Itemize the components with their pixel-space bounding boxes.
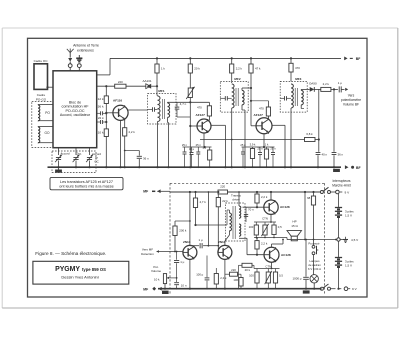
svg-text:Vers: Vers bbox=[348, 93, 355, 97]
svg-text:12 k: 12 k bbox=[98, 97, 104, 101]
svg-text:25 n: 25 n bbox=[196, 143, 202, 147]
svg-text:AF127: AF127 bbox=[196, 113, 206, 117]
svg-text:OC: OC bbox=[94, 159, 98, 163]
svg-text:1,5 V: 1,5 V bbox=[345, 214, 352, 218]
svg-text:Marche-Arrêt: Marche-Arrêt bbox=[332, 183, 351, 187]
svg-text:22 k: 22 k bbox=[98, 116, 104, 120]
svg-text:25 n: 25 n bbox=[182, 143, 188, 147]
svg-text:BF: BF bbox=[356, 166, 361, 170]
svg-text:Accord, oscillateur: Accord, oscillateur bbox=[60, 113, 91, 117]
svg-text:Cadre OC: Cadre OC bbox=[34, 59, 49, 63]
svg-text:220: 220 bbox=[118, 80, 123, 84]
svg-text:AC128: AC128 bbox=[280, 205, 290, 209]
svg-text:470: 470 bbox=[259, 107, 264, 111]
svg-text:ont leurs boîtiers mis à la ma: ont leurs boîtiers mis à la masse bbox=[59, 184, 113, 188]
svg-text:10 k: 10 k bbox=[98, 131, 104, 135]
svg-text:Volume BF: Volume BF bbox=[343, 102, 359, 106]
svg-text:MF3: MF3 bbox=[295, 77, 301, 81]
svg-text:potentiomètre: potentiomètre bbox=[341, 98, 361, 102]
svg-text:AF127: AF127 bbox=[254, 113, 264, 117]
svg-text:Poussoir: Poussoir bbox=[308, 242, 319, 246]
svg-text:0,5: 0,5 bbox=[278, 225, 282, 229]
svg-text:100: 100 bbox=[249, 273, 254, 277]
svg-text:Détection: Détection bbox=[141, 252, 154, 256]
svg-text:CTN: CTN bbox=[262, 216, 268, 220]
svg-text:4,5 V: 4,5 V bbox=[351, 238, 359, 242]
svg-text:Antenne et Terre: Antenne et Terre bbox=[73, 44, 99, 48]
svg-text:Figure 8. — Schéma électroniqu: Figure 8. — Schéma électronique. bbox=[35, 251, 106, 256]
svg-text:20 k: 20 k bbox=[245, 268, 251, 272]
svg-text:40 n: 40 n bbox=[322, 153, 328, 157]
svg-text:4,7 k: 4,7 k bbox=[200, 200, 207, 204]
svg-text:Accord: Accord bbox=[61, 151, 70, 155]
svg-text:PYGMY: PYGMY bbox=[55, 266, 80, 273]
svg-text:1 k: 1 k bbox=[161, 67, 165, 71]
svg-text:2,2 k: 2,2 k bbox=[261, 241, 268, 245]
svg-text:MF: MF bbox=[143, 287, 148, 291]
svg-text:25 n: 25 n bbox=[240, 143, 246, 147]
svg-text:1 μ: 1 μ bbox=[180, 260, 184, 264]
svg-text:6 V 0,04 A: 6 V 0,04 A bbox=[308, 267, 321, 271]
svg-text:BF: BF bbox=[356, 57, 361, 61]
svg-text:68: 68 bbox=[307, 196, 311, 200]
svg-text:0,5: 0,5 bbox=[279, 273, 283, 277]
svg-text:6,8 k: 6,8 k bbox=[306, 132, 313, 136]
svg-text:extérieures: extérieures bbox=[77, 49, 94, 53]
svg-text:47 k: 47 k bbox=[255, 67, 261, 71]
svg-text:3,9 k: 3,9 k bbox=[250, 142, 256, 146]
svg-text:470: 470 bbox=[295, 66, 300, 70]
svg-text:36 n: 36 n bbox=[143, 156, 149, 160]
svg-text:MF: MF bbox=[143, 190, 148, 194]
svg-text:MF2: MF2 bbox=[234, 77, 240, 81]
svg-text:4,7 n: 4,7 n bbox=[180, 102, 187, 106]
svg-text:AA131: AA131 bbox=[142, 79, 151, 83]
svg-text:100: 100 bbox=[249, 225, 254, 229]
svg-text:2,2 k: 2,2 k bbox=[220, 276, 227, 280]
svg-text:10 k: 10 k bbox=[154, 278, 160, 282]
svg-text:type 859 OS: type 859 OS bbox=[82, 267, 106, 272]
svg-text:70 n: 70 n bbox=[248, 207, 254, 211]
svg-text:36 n: 36 n bbox=[338, 153, 344, 157]
svg-text:1,5 V: 1,5 V bbox=[345, 264, 352, 268]
svg-text:15 Ω: 15 Ω bbox=[291, 224, 298, 228]
svg-text:22 k: 22 k bbox=[222, 199, 228, 203]
svg-text:OA90: OA90 bbox=[309, 81, 317, 85]
svg-text:20 k: 20 k bbox=[194, 67, 200, 71]
svg-text:10 n: 10 n bbox=[181, 284, 187, 288]
svg-text:GO: GO bbox=[45, 131, 50, 135]
svg-text:470: 470 bbox=[197, 105, 202, 109]
svg-text:1000 μ: 1000 μ bbox=[293, 276, 302, 280]
svg-text:AF116: AF116 bbox=[113, 99, 122, 103]
svg-text:2,2 k: 2,2 k bbox=[129, 130, 136, 134]
svg-text:CTN: CTN bbox=[265, 264, 271, 268]
svg-text:2,2 k: 2,2 k bbox=[323, 82, 330, 86]
svg-text:MF1: MF1 bbox=[158, 89, 164, 93]
svg-text:100: 100 bbox=[233, 278, 238, 282]
svg-text:220: 220 bbox=[220, 184, 225, 188]
svg-text:AC128: AC128 bbox=[281, 253, 291, 257]
svg-text:Les transistors AF125 et AF127: Les transistors AF125 et AF127 bbox=[60, 180, 113, 184]
svg-text:1 μ: 1 μ bbox=[198, 238, 202, 242]
svg-text:220: 220 bbox=[231, 268, 236, 272]
svg-text:Volume: Volume bbox=[151, 269, 161, 273]
svg-text:Dessin Yves Antonini: Dessin Yves Antonini bbox=[61, 274, 98, 279]
svg-text:100 μ: 100 μ bbox=[196, 273, 203, 277]
svg-text:2,2 k: 2,2 k bbox=[261, 195, 268, 199]
svg-text:36 k: 36 k bbox=[98, 104, 104, 108]
svg-text:Vers MF: Vers MF bbox=[142, 247, 153, 251]
svg-text:PO-GO: PO-GO bbox=[36, 97, 47, 101]
svg-text:200 k: 200 k bbox=[179, 229, 187, 233]
svg-text:PO: PO bbox=[45, 111, 50, 115]
svg-text:2,2 k: 2,2 k bbox=[236, 67, 243, 71]
svg-text:1 μ: 1 μ bbox=[338, 81, 342, 85]
